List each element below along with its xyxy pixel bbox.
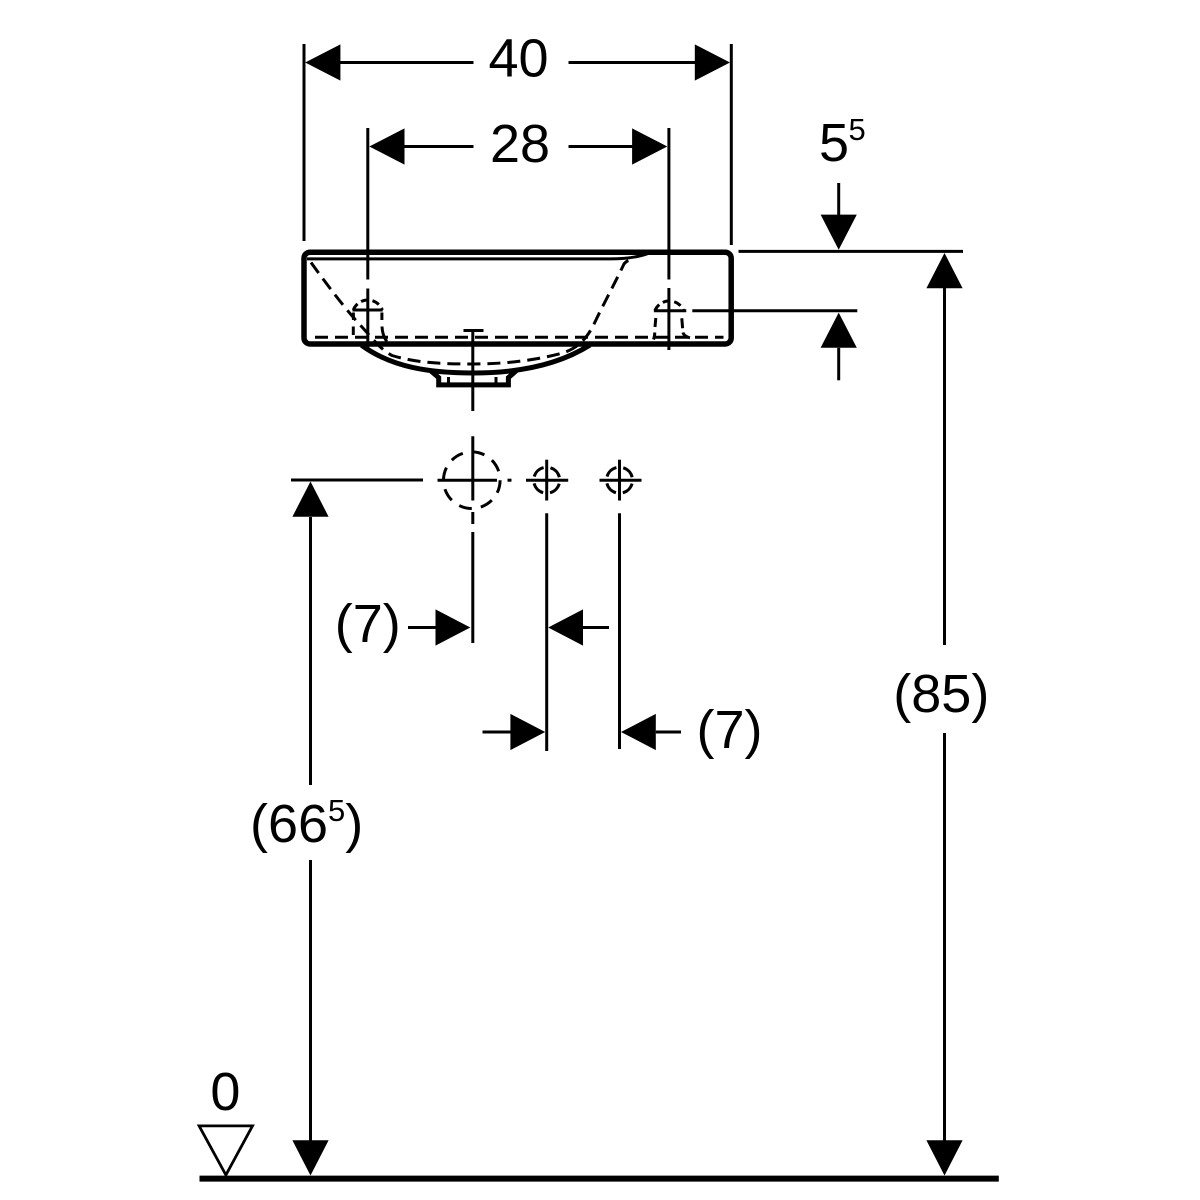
dimension 28 line [404,145,633,148]
fixing hole right dashed circle [607,467,633,493]
basin inner rim line [307,252,651,259]
dimension 28 arrow right [632,128,667,164]
svg-text:5: 5 [819,113,849,173]
datum triangle [199,1126,252,1175]
fixing hole right leader line down [618,513,621,749]
fixing hole left leader line down [545,513,548,751]
datum 0 label [210,1062,240,1122]
dimension (66.5) bottom arrow (pointing down) [292,1140,328,1175]
reference line top (basin top edge extended) [739,250,964,253]
dimension 40 label [488,29,548,89]
drain hole horizontal axis [438,479,512,482]
svg-text:28: 28 [490,114,550,174]
drain centerline tick [464,329,484,332]
dimension 40 arrow left [305,44,340,80]
svg-text:40: 40 [488,29,548,89]
drain flange [431,371,517,385]
basin interior dashed bowl outline [311,259,633,364]
fixing hole left dashed circle [534,467,560,493]
dimension (85) line [943,288,946,1142]
ground line [200,1176,999,1182]
dimension 40 arrow right [695,44,730,80]
dimension (66.5) line [309,517,312,1142]
drain hole dashed circle [444,452,501,509]
reference line tap hole axis (extended right) [654,309,857,312]
dimension 28 label [490,114,550,174]
dimension (7) row2 arrow right-pointing [483,714,546,750]
dimension 40 extension line right [730,44,733,245]
fixing hole right axes [600,460,642,501]
faucet hole left axis line [353,309,383,312]
dimension (7) row1 arrow right-pointing [408,609,470,645]
faucet hole left dashed arch [353,300,387,342]
dimension 40 extension line left [303,44,306,241]
svg-text:(85): (85) [893,664,989,724]
svg-text:5: 5 [849,112,866,147]
dimension 28 extension line left [366,128,369,348]
dimension 40 line [340,61,696,64]
dimension 5.5 label [819,112,866,173]
basin dashed back edge line [315,336,724,339]
dimension (66.5) label [250,793,363,854]
drain flange tick right [495,377,498,385]
dimension (7) row1 label [335,594,401,654]
dimension (7) row2 arrow left-pointing [621,714,681,750]
dimension 5.5 lower arrow (pointing up) [821,313,857,381]
svg-text:0: 0 [210,1062,240,1122]
dimension (85) label [893,664,989,724]
dimension 28 extension line right [667,128,670,350]
faucet hole right dashed arch [654,301,691,340]
svg-text:(7): (7) [335,594,401,654]
dimension (7) row1 arrow left-pointing [548,609,609,645]
fixing hole left axes [526,460,568,501]
dimension (85) top arrow (pointing up) [926,253,962,288]
svg-text:(665): (665) [250,793,363,854]
drain centerline [471,330,474,643]
basin outer outline [304,252,731,344]
dimension (7) row2 label [697,700,763,760]
bowl underside [362,345,591,373]
drain flange tick left [447,377,450,385]
dimension 28 arrow left [369,128,404,164]
dimension (66.5) top arrow (pointing up) [292,482,328,517]
dimension 5.5 upper arrow (pointing down) [821,183,857,250]
reference line left (66.5 datum top) [291,479,423,482]
dimension (85) bottom arrow (pointing down) [926,1140,962,1175]
svg-text:(7): (7) [697,700,763,760]
